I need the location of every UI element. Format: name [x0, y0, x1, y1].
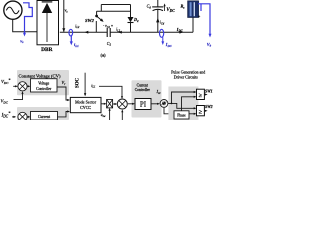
blue voltage probe vs	[23, 3, 32, 33]
mode selector box	[70, 97, 101, 112]
blue current probe IDC	[160, 29, 164, 37]
capacitor C2 on bus	[106, 28, 108, 37]
IDC arrow right on bus	[179, 31, 183, 34]
summing junction CC	[18, 112, 27, 121]
pulse generation grey area	[168, 87, 198, 121]
svg-text:SW2: SW2	[205, 105, 213, 109]
blue current probe iL1	[69, 29, 73, 36]
svg-text:PI: PI	[140, 101, 147, 109]
node Vr output wire	[57, 87, 68, 100]
svg-text:D2: D2	[133, 17, 139, 23]
top rail B	[97, 10, 131, 12]
main bus left part	[60, 31, 107, 33]
wire source bottom to DBR	[13, 19, 37, 32]
svg-text:Current: Current	[137, 83, 148, 87]
svg-text:Phase: Phase	[177, 114, 186, 118]
svg-text:CVCC: CVCC	[80, 105, 91, 110]
bus current arrow (left) near C2	[118, 31, 122, 34]
multiplier box	[107, 100, 113, 108]
svg-text:Mode Sector: Mode Sector	[75, 99, 97, 104]
svg-text:Vb: Vb	[207, 42, 212, 48]
capacitor Cd	[157, 0, 159, 7]
svg-text:SW2: SW2	[85, 18, 95, 23]
junction	[171, 103, 173, 105]
svg-text:VDC: VDC	[166, 8, 175, 13]
diode D2	[130, 5, 132, 18]
carrier circle bottom stub to phase	[164, 107, 173, 114]
svg-text:Current: Current	[38, 114, 51, 119]
phase box	[174, 111, 189, 119]
svg-text:(a): (a)	[101, 53, 107, 58]
comparator 2	[197, 106, 205, 116]
node u_sw arrow up into multiplier	[109, 110, 111, 120]
svg-text:≥: ≥	[199, 108, 203, 115]
svg-text:SW1: SW1	[205, 89, 213, 93]
current controller grey block	[132, 80, 162, 117]
CV block grey box	[17, 70, 69, 95]
wire bottom input into summing junction	[121, 111, 123, 120]
DBR block	[37, 1, 59, 45]
svg-text:DBR: DBR	[41, 47, 52, 53]
top rail A	[101, 4, 130, 6]
PI box	[135, 99, 151, 110]
wire DBR output with node label vs	[63, 0, 65, 32]
svg-text:C2: C2	[107, 41, 112, 47]
svg-text:Voltage: Voltage	[38, 81, 50, 85]
ac source VS	[4, 1, 22, 19]
wire CC to mode selector	[58, 112, 69, 117]
svg-text:+: +	[198, 14, 201, 19]
summing junction CV	[18, 82, 27, 91]
switch SW2	[96, 11, 98, 15]
rail A-B stub	[100, 5, 102, 12]
svg-text:Pulse Generation and: Pulse Generation and	[171, 69, 205, 74]
svg-text:≥: ≥	[199, 92, 203, 99]
svg-text:Controller: Controller	[36, 87, 52, 91]
current arrow iL2 on bus	[85, 31, 89, 34]
summing junction current	[117, 99, 127, 109]
SOC arrow down	[84, 73, 86, 95]
CC block grey box (cropped at bottom)	[17, 107, 69, 120]
iCd arrow up	[156, 18, 159, 22]
svg-text:Cd: Cd	[147, 4, 152, 10]
svg-text:Controller: Controller	[135, 88, 151, 92]
main bus right part	[111, 31, 194, 33]
svg-text:Driver Circuits: Driver Circuits	[174, 75, 199, 80]
wire circle to comparator1	[168, 92, 195, 103]
svg-text:IDC: IDC	[176, 27, 184, 33]
svg-text:SOC: SOC	[75, 77, 80, 88]
arrow down on DBR output	[62, 28, 65, 32]
blue Vb sense wire	[198, 4, 210, 34]
current controller box (cropped)	[31, 112, 58, 121]
carrier wire to comparator1	[182, 97, 195, 111]
svg-text:Constant Voltage (CV): Constant Voltage (CV)	[19, 73, 61, 78]
carrier comparison circle	[151, 103, 158, 105]
voltage controller box	[31, 79, 58, 92]
phase output to comparator2	[189, 113, 195, 115]
wire to comparator2	[172, 103, 195, 108]
comparator 1	[197, 89, 205, 99]
svg-text:IDC: IDC	[165, 42, 173, 48]
battery bottom wire	[192, 18, 194, 33]
diode D1 (inside DBR)	[42, 1, 53, 3]
